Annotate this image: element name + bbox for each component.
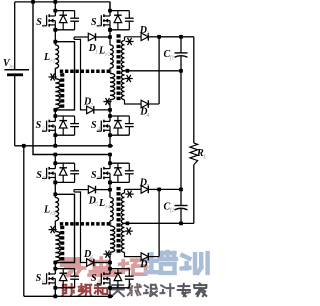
svg-text:L: L — [43, 205, 50, 216]
svg-text:8: 8 — [146, 266, 149, 272]
svg-text:f2: f2 — [170, 207, 175, 214]
svg-text:S: S — [91, 17, 97, 28]
svg-text:f1: f1 — [170, 55, 175, 62]
svg-text:r1: r1 — [50, 59, 55, 65]
svg-text:1: 1 — [95, 50, 98, 56]
svg-text:3: 3 — [145, 32, 149, 38]
svg-text:2: 2 — [90, 103, 93, 109]
svg-text:S: S — [91, 273, 97, 284]
svg-text:4: 4 — [146, 112, 149, 119]
svg-text:6: 6 — [90, 256, 93, 262]
svg-text:4: 4 — [97, 126, 100, 133]
svg-text:r4: r4 — [105, 204, 110, 211]
svg-text:S: S — [91, 120, 97, 131]
svg-text:in: in — [9, 65, 14, 71]
svg-text:L: L — [43, 52, 50, 63]
svg-text:L: L — [98, 198, 105, 209]
svg-text:S: S — [91, 170, 97, 181]
svg-text:2: 2 — [42, 127, 45, 133]
svg-text:L: L — [98, 46, 105, 57]
svg-text:5: 5 — [42, 176, 45, 182]
svg-text:S: S — [36, 17, 42, 28]
svg-text:3: 3 — [96, 24, 100, 30]
svg-text:S: S — [36, 120, 42, 131]
svg-text:8: 8 — [97, 279, 100, 285]
svg-text:L: L — [202, 155, 207, 161]
svg-text:r3: r3 — [50, 211, 55, 217]
svg-text:r2: r2 — [105, 52, 110, 58]
svg-text:S: S — [36, 170, 42, 181]
svg-text:S: S — [36, 273, 42, 284]
svg-text:5: 5 — [95, 202, 98, 208]
svg-text:6: 6 — [42, 279, 45, 285]
svg-text:1: 1 — [42, 24, 45, 30]
